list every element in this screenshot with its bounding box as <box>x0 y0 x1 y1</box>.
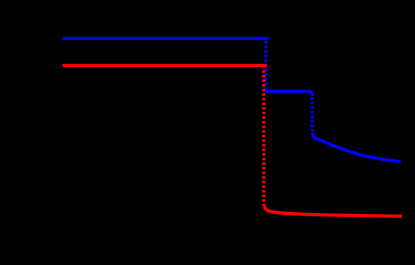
red curve upper plateau <box>63 64 267 67</box>
blue curve middle plateau <box>266 91 313 96</box>
blue curve upper plateau <box>62 37 268 40</box>
red curve decaying tail <box>264 207 402 217</box>
blue dotted drop 1 <box>265 41 268 90</box>
blue dotted drop 2 <box>311 97 314 135</box>
red dotted drop <box>262 68 265 207</box>
blue curve decaying tail <box>312 133 401 162</box>
